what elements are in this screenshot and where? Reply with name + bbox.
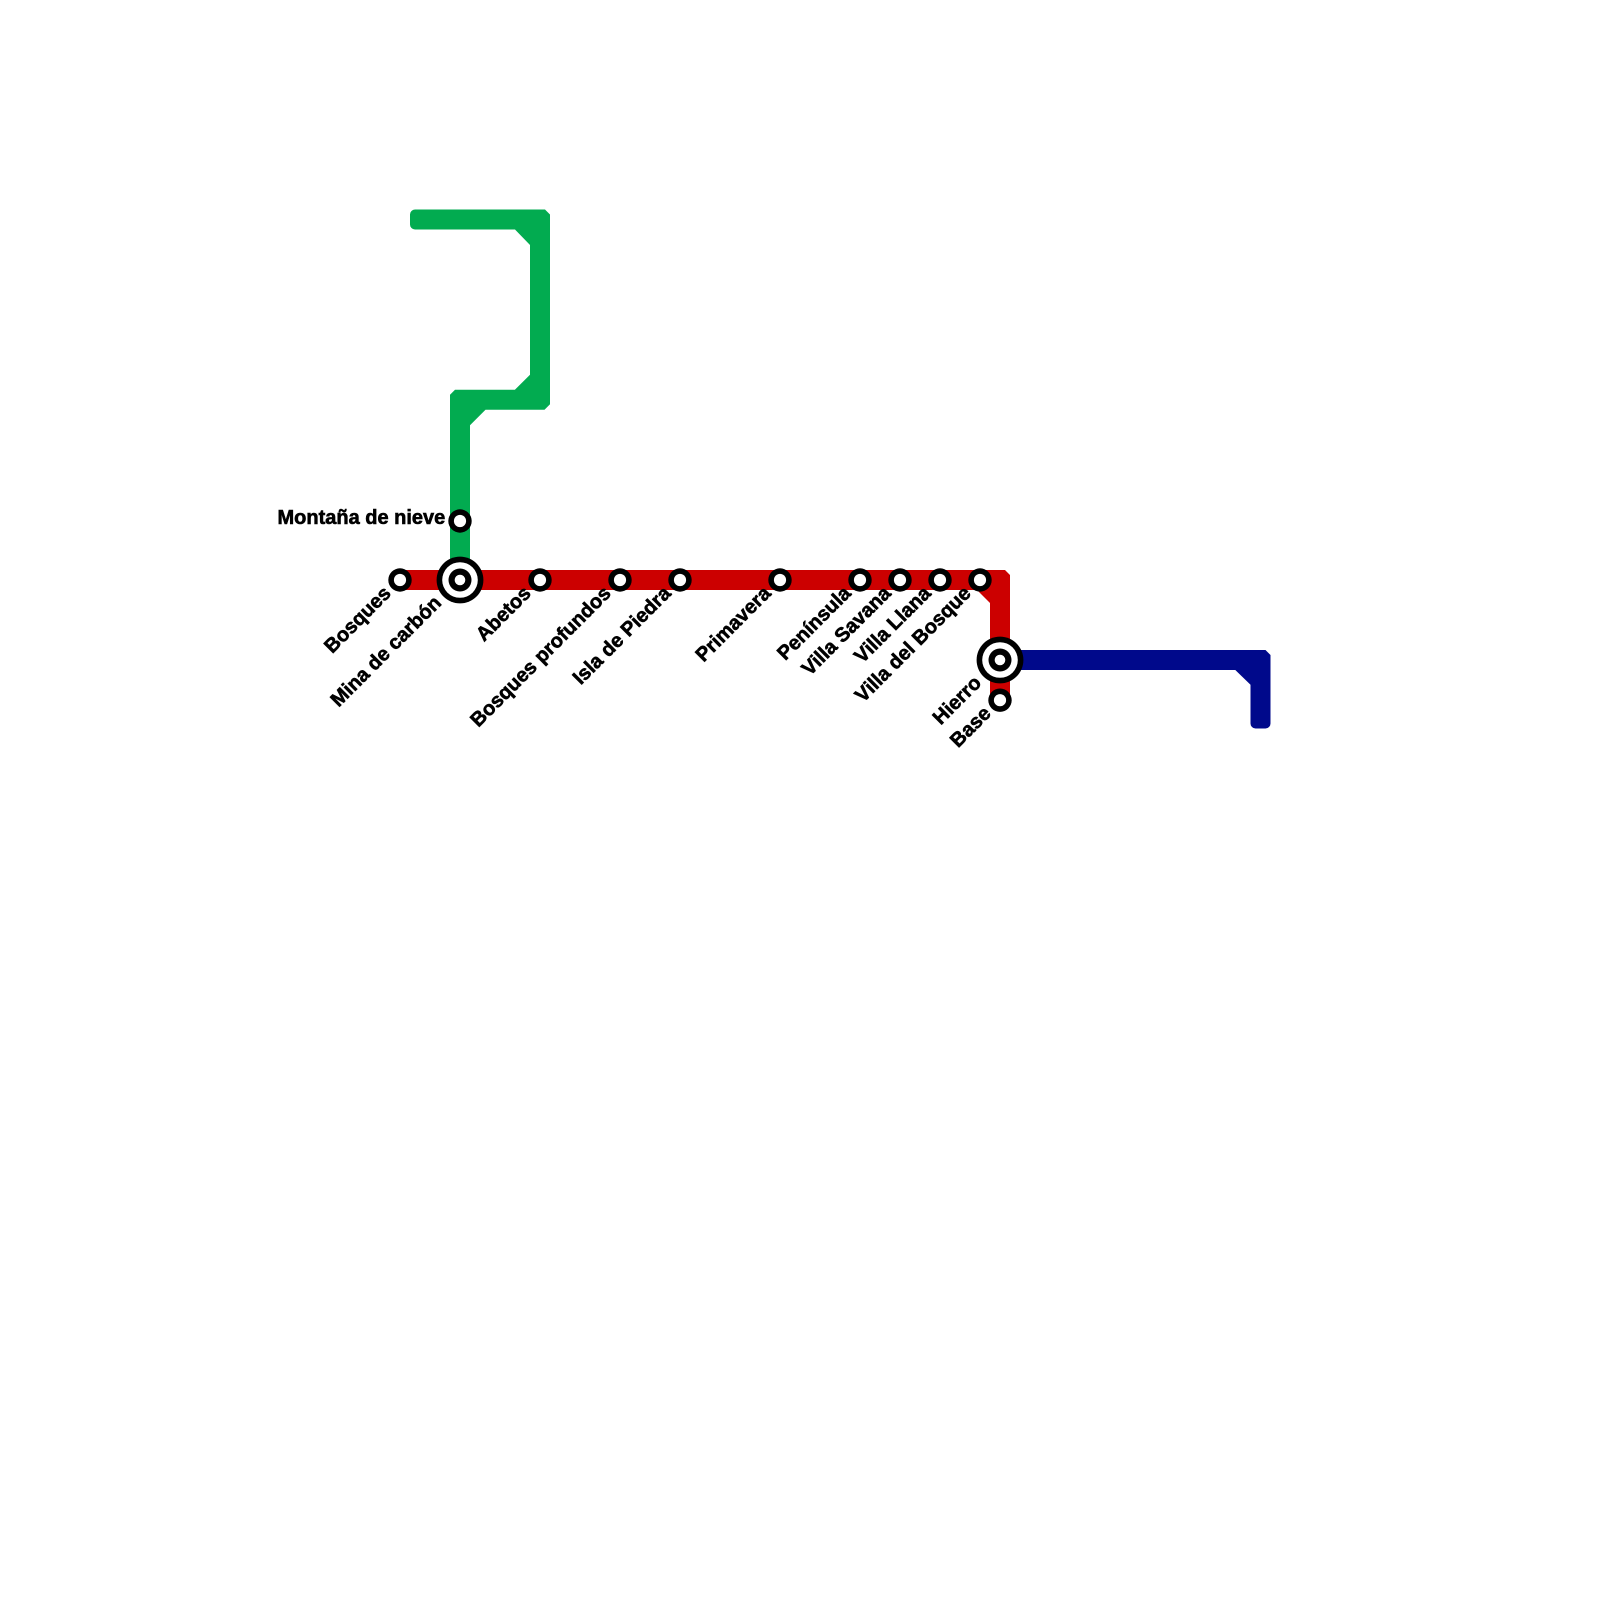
svg-text:Abetos: Abetos [472, 582, 535, 645]
svg-text:Primavera: Primavera [692, 582, 777, 667]
svg-text:Mina de carbón: Mina de carbón [327, 592, 446, 711]
svg-text:Montaña de nieve: Montaña de nieve [277, 507, 445, 529]
